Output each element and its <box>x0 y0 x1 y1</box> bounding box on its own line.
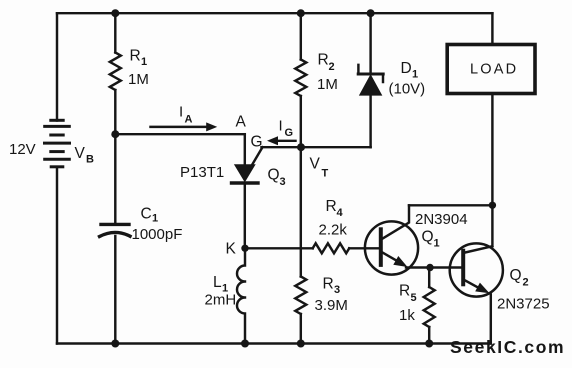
node dot base junction <box>426 264 433 271</box>
wire K horizontal <box>245 247 313 249</box>
node dot top D1 <box>367 9 375 17</box>
wire R3 bottom <box>300 314 302 344</box>
battery VB plates <box>45 120 70 167</box>
diode D1 zener bar <box>358 73 383 76</box>
wire load top drop <box>491 13 493 44</box>
wire D1 top <box>369 13 371 72</box>
svg-text:3: 3 <box>280 176 286 188</box>
arrowhead Q2 emitter <box>475 283 489 294</box>
svg-text:T: T <box>322 168 329 180</box>
thyristor Q3 triangle <box>235 165 254 181</box>
inductor L1 <box>237 248 245 343</box>
wire R1 bottom <box>114 90 116 134</box>
svg-text:1000pF: 1000pF <box>132 226 183 243</box>
svg-text:1k: 1k <box>399 307 415 324</box>
wire Q1 collector horizontal <box>409 204 492 206</box>
arrow IA <box>151 126 210 128</box>
node dot A junction <box>111 130 119 138</box>
svg-text:(10V): (10V) <box>389 81 426 98</box>
wire battery bottom <box>56 167 58 344</box>
svg-text:2: 2 <box>523 277 529 289</box>
svg-text:R: R <box>318 52 329 69</box>
svg-text:G: G <box>251 134 263 151</box>
svg-text:R: R <box>326 198 337 215</box>
wire bottom rail <box>57 342 491 344</box>
svg-text:5: 5 <box>411 292 417 304</box>
node dot top R1 <box>111 9 119 17</box>
svg-text:G: G <box>285 127 294 139</box>
resistor R3 <box>295 277 306 315</box>
svg-text:V: V <box>310 156 321 173</box>
arrow IG <box>273 140 296 142</box>
svg-text:2.2k: 2.2k <box>319 222 348 239</box>
svg-text:SeekIC.com: SeekIC.com <box>450 337 565 357</box>
svg-text:LOAD: LOAD <box>470 62 518 78</box>
wire R1 top <box>114 13 116 52</box>
svg-text:2: 2 <box>329 61 335 73</box>
svg-text:K: K <box>226 241 237 258</box>
wire load bottom drop <box>491 94 493 247</box>
svg-text:Q: Q <box>510 267 522 284</box>
svg-text:12V: 12V <box>9 141 36 158</box>
svg-text:1: 1 <box>141 56 147 68</box>
transistor Q2 collector <box>465 246 492 252</box>
node dot top R2 <box>297 9 305 17</box>
wire R3 top <box>300 147 302 276</box>
transistor Q1 circle <box>365 221 418 274</box>
transistor Q2 emitter <box>465 281 483 291</box>
svg-text:2N3725: 2N3725 <box>497 296 550 313</box>
node dot K <box>241 245 248 252</box>
svg-text:I: I <box>179 104 183 121</box>
node dot VT <box>297 143 305 151</box>
transistor Q1 collector <box>383 205 409 238</box>
wire Q1 emitter to node <box>406 266 463 268</box>
svg-text:2mH: 2mH <box>205 292 237 309</box>
svg-text:D: D <box>401 60 412 77</box>
wire battery top <box>56 13 58 120</box>
svg-text:L: L <box>213 274 222 291</box>
transistor Q2 circle <box>450 243 503 296</box>
transistor Q1 emitter <box>383 253 400 263</box>
transistor Q2 base bar <box>461 251 465 285</box>
svg-text:I: I <box>279 118 283 135</box>
wire node A horizontal <box>115 133 245 135</box>
wire R5 top <box>428 268 430 288</box>
arrowhead IG <box>267 136 278 145</box>
wire D1 bottom <box>369 95 371 147</box>
transistor Q1 base bar <box>379 229 383 265</box>
node dot rail C1 <box>111 340 119 348</box>
svg-text:1: 1 <box>434 238 440 250</box>
resistor R4 <box>313 243 350 253</box>
node dot Q1 collector <box>489 202 496 209</box>
resistor R5 <box>424 287 435 327</box>
thyristor Q3 cathode bar <box>232 181 259 184</box>
wire C1 top <box>114 134 116 222</box>
svg-text:1: 1 <box>152 213 158 225</box>
wire R5 bottom <box>428 327 430 344</box>
wire Q2 emitter drop <box>490 295 492 344</box>
svg-text:3.9M: 3.9M <box>315 297 348 314</box>
wire R2 bottom <box>300 96 302 147</box>
capacitor C1 <box>100 224 131 236</box>
svg-text:R: R <box>323 276 334 293</box>
wire R2 top <box>300 13 302 59</box>
svg-text:R: R <box>130 48 141 65</box>
wire top rail <box>57 12 492 14</box>
arrowhead Q1 emitter <box>393 256 407 267</box>
svg-text:A: A <box>236 114 247 131</box>
svg-text:R: R <box>399 283 410 300</box>
svg-text:V: V <box>75 145 86 162</box>
node dot rail R5 <box>425 340 433 348</box>
node dot rail L1 <box>241 340 249 348</box>
svg-text:C: C <box>141 206 152 223</box>
svg-text:1M: 1M <box>128 71 149 88</box>
resistor R1 <box>110 53 121 91</box>
wire R4 to Q1 base <box>349 247 381 249</box>
svg-text:B: B <box>86 154 94 166</box>
svg-text:Q: Q <box>422 229 434 246</box>
svg-text:P13T1: P13T1 <box>180 164 224 181</box>
svg-text:2N3904: 2N3904 <box>415 211 468 228</box>
svg-text:1M: 1M <box>317 76 338 93</box>
wire VT horizontal <box>262 146 371 148</box>
diode D1 zener hooks <box>358 65 383 82</box>
svg-text:4: 4 <box>337 207 344 219</box>
wire Q3 cathode to K <box>244 185 246 249</box>
wire SCR anode drop <box>244 134 246 165</box>
diode D1 triangle <box>360 76 381 95</box>
svg-text:3: 3 <box>334 284 340 296</box>
svg-text:1: 1 <box>412 69 418 81</box>
resistor R2 <box>295 60 306 97</box>
load box <box>447 45 535 94</box>
node dot rail R3 <box>297 340 305 348</box>
wire C1 bottom <box>114 236 116 344</box>
arrowhead IA <box>206 122 217 131</box>
svg-text:A: A <box>185 114 193 126</box>
svg-text:Q: Q <box>268 167 280 184</box>
wire gate diagonal <box>249 147 263 170</box>
